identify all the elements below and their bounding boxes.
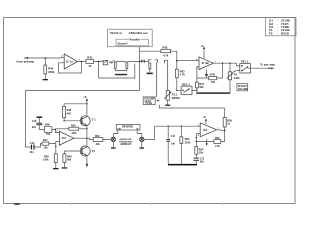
svg-text:50 HV in: 50 HV in <box>110 31 122 35</box>
svg-text:72k: 72k <box>211 80 216 84</box>
svg-text:REVERB: REVERB <box>122 125 133 129</box>
svg-text:22k: 22k <box>96 143 101 146</box>
svg-text:6: 6 <box>196 59 197 61</box>
svg-text:1n8: 1n8 <box>171 143 176 145</box>
svg-text:C15: C15 <box>171 136 176 138</box>
svg-text:R50: R50 <box>71 125 76 128</box>
svg-text:Serienʷ: Serienʷ <box>118 42 129 46</box>
svg-text:220k: 220k <box>185 142 191 145</box>
svg-text:C12: C12 <box>30 142 35 145</box>
svg-text:EFFEKT: EFFEKT <box>238 86 248 88</box>
svg-text:2: 2 <box>57 131 58 133</box>
svg-text:1k: 1k <box>88 64 92 68</box>
svg-text:IC 1a: IC 1a <box>66 60 73 64</box>
svg-text:15k: 15k <box>46 133 51 136</box>
svg-text:B250K: B250K <box>172 96 180 100</box>
svg-text:643: 643 <box>67 113 72 116</box>
svg-text:RE1.4: RE1.4 <box>182 82 190 86</box>
svg-text:C16: C16 <box>32 120 37 123</box>
svg-text:6k8: 6k8 <box>67 159 72 162</box>
svg-text:1: 1 <box>79 59 80 61</box>
svg-text:220k: 220k <box>48 70 55 74</box>
svg-text:T2: T2 <box>92 149 96 153</box>
svg-text:R46: R46 <box>45 123 50 126</box>
svg-text:Parallel: Parallel <box>130 37 140 41</box>
svg-text:4.7k: 4.7k <box>163 53 169 57</box>
svg-text:IC 4B: IC 4B <box>202 61 209 65</box>
svg-text:F2-B213I: F2-B213I <box>269 31 289 35</box>
svg-text:10k: 10k <box>199 152 204 155</box>
svg-text:IC3: IC3 <box>62 136 67 140</box>
svg-text:R47: R47 <box>43 139 48 142</box>
svg-text:C13: C13 <box>200 159 205 161</box>
svg-text:10n: 10n <box>29 151 34 154</box>
svg-text:100k: 100k <box>43 159 49 162</box>
svg-text:3: 3 <box>198 135 199 137</box>
svg-text:7: 7 <box>215 62 216 64</box>
svg-text:from preamp: from preamp <box>17 60 35 64</box>
svg-text:IC2: IC2 <box>203 128 208 132</box>
svg-text:R52: R52 <box>95 135 100 138</box>
svg-text:+5: +5 <box>83 95 87 99</box>
svg-text:5: 5 <box>196 68 197 70</box>
svg-text:1k: 1k <box>227 123 230 126</box>
svg-text:56k: 56k <box>199 85 204 89</box>
svg-text:A50m/Kit out: A50m/Kit out <box>129 31 148 35</box>
svg-text:To pwr amp: To pwr amp <box>260 63 275 67</box>
svg-text:245k: 245k <box>234 76 240 80</box>
svg-text:4.7k: 4.7k <box>215 145 220 148</box>
svg-text:R42: R42 <box>163 46 168 50</box>
svg-text:VOLUME: VOLUME <box>238 89 248 91</box>
svg-text:+5: +5 <box>203 115 207 119</box>
svg-text:R45: R45 <box>210 73 215 77</box>
svg-text:+5: +5 <box>201 44 205 48</box>
svg-text:#AB2E1 B: #AB2E1 B <box>120 143 131 146</box>
svg-text:32n: 32n <box>32 126 37 129</box>
svg-text:73 Wx: 73 Wx <box>145 102 153 105</box>
svg-text:4/56: 4/56 <box>72 132 77 135</box>
svg-text:R41: R41 <box>87 56 93 60</box>
svg-text:2: 2 <box>198 125 199 127</box>
svg-text:4.7k: 4.7k <box>180 73 186 77</box>
svg-text:R55: R55 <box>215 137 220 140</box>
svg-text:68n: 68n <box>200 162 205 164</box>
svg-text:2: 2 <box>62 56 63 58</box>
svg-text:RE1.1: RE1.1 <box>241 60 249 64</box>
svg-text:15k: 15k <box>44 147 49 150</box>
svg-text:T 1: T 1 <box>92 117 96 121</box>
svg-text:1: 1 <box>218 128 219 130</box>
